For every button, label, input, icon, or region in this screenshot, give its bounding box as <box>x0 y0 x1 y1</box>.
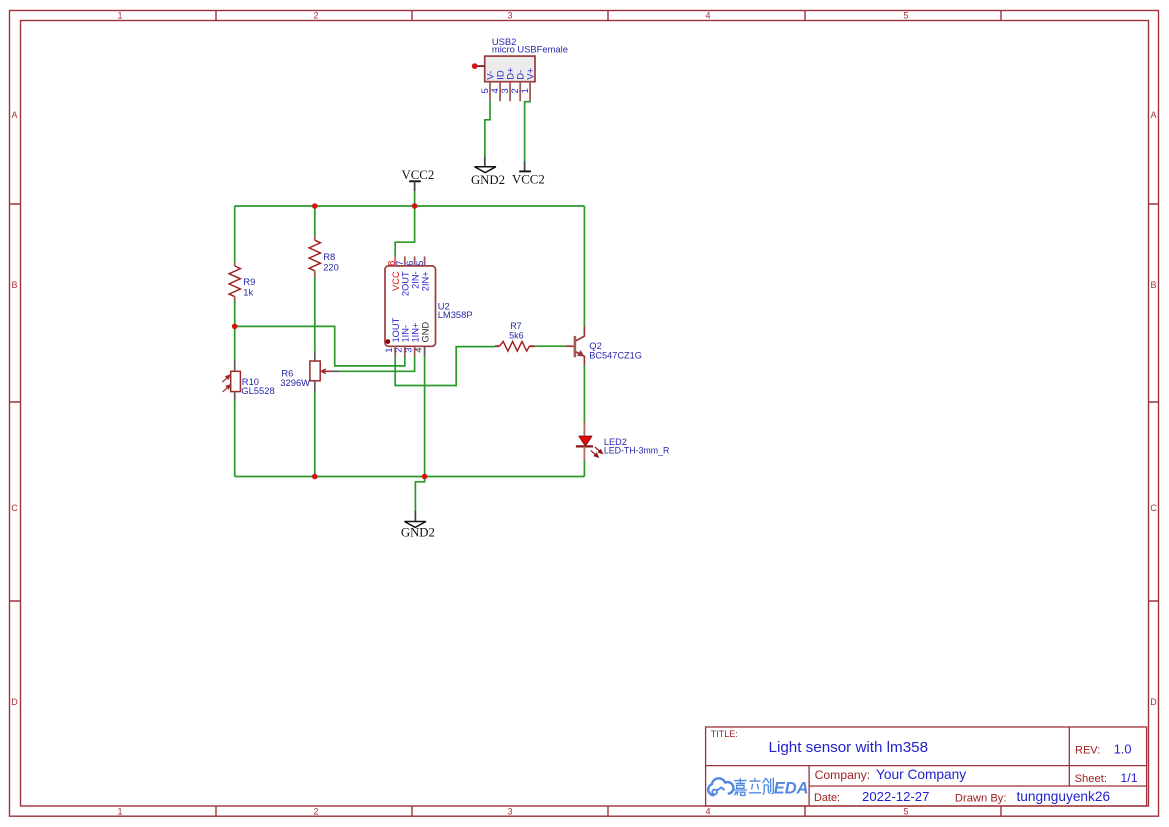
wire mid VCC2 flag stem <box>414 191 416 206</box>
svg-text:B: B <box>11 280 17 290</box>
LED2 triangle <box>579 436 592 446</box>
power flag GND2 (top) triangle <box>475 167 496 173</box>
svg-text:1/1: 1/1 <box>1120 771 1137 785</box>
wire R6 wiper to U2 pin3 (1IN+) <box>340 357 415 372</box>
resistor R8 zigzag <box>309 240 320 271</box>
svg-text:VCC: VCC <box>391 271 401 291</box>
photoresistor R10 body <box>231 371 241 391</box>
resistor R7 zigzag <box>500 341 530 351</box>
wire R8 column mid (R8 to R6) <box>314 278 316 352</box>
USB2 pin 5 <box>489 82 491 102</box>
svg-text:EDA: EDA <box>774 780 809 798</box>
svg-text:1.0: 1.0 <box>1114 742 1132 757</box>
svg-text:C: C <box>1150 503 1157 513</box>
wire VCC2 drop to U2 pin8 <box>395 206 414 257</box>
LED2 cathode bar <box>576 445 593 447</box>
wire left column mid (R9 to node to R10) <box>234 302 236 362</box>
power flag VCC2 (top, under USB) stem <box>524 162 526 172</box>
op-amp U2 body <box>385 266 436 346</box>
op-amp U2 pin 2 stub <box>404 346 406 356</box>
potentiometer R6 top stub <box>314 351 316 361</box>
op-amp U2 pin 7 stub <box>404 256 406 266</box>
power flag GND2 (bottom) stub <box>414 511 416 522</box>
wire R8 column upper (rail to R8) <box>314 206 316 236</box>
wire U2 pin4 (GND) to bottom rail <box>424 357 426 477</box>
svg-text:tungnguyenk26: tungnguyenk26 <box>1017 789 1111 804</box>
svg-text:Date:: Date: <box>814 792 840 804</box>
svg-text:Light sensor with lm358: Light sensor with lm358 <box>769 739 929 756</box>
op-amp U2 pin 5 stub <box>424 256 426 266</box>
svg-text:4: 4 <box>705 806 710 816</box>
svg-text:VCC2: VCC2 <box>512 173 545 187</box>
svg-text:1: 1 <box>117 11 122 21</box>
svg-text:Company:: Company: <box>815 768 871 782</box>
svg-text:1IN+: 1IN+ <box>411 323 421 343</box>
wire left column upper (rail to R9) <box>234 206 236 262</box>
svg-text:5: 5 <box>415 261 426 266</box>
op-amp U2 pin 1 stub <box>394 346 396 356</box>
power flag GND2 (top, under USB) stub <box>484 156 486 166</box>
wire left column lower (R10 to bottom rail) <box>234 401 236 477</box>
logo CJK glyph jia <box>733 778 747 795</box>
power flag VCC2 (top) bar <box>519 170 531 172</box>
svg-text:3: 3 <box>507 806 512 816</box>
svg-text:R9: R9 <box>243 276 255 287</box>
svg-text:R8: R8 <box>323 251 335 262</box>
svg-text:5: 5 <box>903 806 908 816</box>
wire USB pin5 to GND2 <box>485 101 490 156</box>
power flag VCC2 (mid) bar <box>409 180 421 182</box>
logo CJK glyph chuang <box>763 778 774 795</box>
LED2 anode stub <box>583 422 585 436</box>
potentiometer R6 wiper arrow <box>321 369 331 373</box>
svg-text:GND: GND <box>421 322 431 343</box>
LED2 light arrow 1 <box>595 447 602 453</box>
svg-text:BC547CZ1G: BC547CZ1G <box>589 350 642 360</box>
svg-text:2OUT: 2OUT <box>401 271 411 296</box>
potentiometer R6 body <box>310 361 320 381</box>
svg-text:C: C <box>11 503 18 513</box>
op-amp U2 pin 1 dot marker <box>385 339 390 344</box>
svg-text:D: D <box>11 697 18 707</box>
wire R7 to Q2 base <box>535 345 566 347</box>
resistor R8 bottom stub <box>314 271 316 278</box>
svg-text:4: 4 <box>413 348 424 353</box>
junction dot bottom rail R6 <box>312 474 318 480</box>
svg-text:GND2: GND2 <box>401 526 435 540</box>
transistor Q2 emitter line <box>576 352 585 365</box>
junction dot top rail VCC2 <box>412 203 418 209</box>
svg-text:V+: V+ <box>526 67 537 79</box>
transistor Q2 base stub <box>565 345 574 347</box>
resistor R9 zigzag <box>229 266 240 297</box>
svg-text:R7: R7 <box>510 321 522 331</box>
op-amp U2 pin 3 stub <box>414 346 416 356</box>
svg-text:2: 2 <box>313 806 318 816</box>
svg-text:1: 1 <box>117 806 122 816</box>
power flag VCC2 (mid) stem <box>414 181 416 191</box>
logo cloud icon <box>708 778 733 795</box>
op-amp U2 pin 6 stub <box>414 256 416 266</box>
transistor Q2 base bar <box>574 336 577 357</box>
connector USB2 box <box>485 56 535 82</box>
potentiometer R6 bottom stub <box>314 381 316 393</box>
svg-text:Drawn By:: Drawn By: <box>955 793 1007 805</box>
title block <box>706 727 1147 806</box>
junction dot bottom rail GND <box>422 474 428 480</box>
LED2 light arrow 2 <box>591 451 598 457</box>
svg-text:B: B <box>1150 280 1156 290</box>
svg-text:1OUT: 1OUT <box>391 317 401 342</box>
frame column ticks bottom <box>216 806 1001 816</box>
photoresistor R10 light arrow 2 <box>223 385 231 392</box>
power flag GND2 (bottom) triangle <box>405 522 426 528</box>
svg-text:A: A <box>11 110 17 120</box>
svg-text:LM358P: LM358P <box>438 309 473 320</box>
USB2 pin 2 <box>519 82 521 102</box>
svg-text:3: 3 <box>507 11 512 21</box>
wire USB pin1 to VCC2 <box>525 100 531 161</box>
wire right column upper (rail to Q2 collector) <box>583 206 585 327</box>
frame row ticks left <box>10 204 21 601</box>
svg-text:220: 220 <box>323 262 339 273</box>
svg-text:VCC2: VCC2 <box>402 168 435 182</box>
resistor R7 right stub <box>529 345 534 347</box>
photoresistor R10 light arrow 1 <box>222 375 230 382</box>
svg-text:TITLE:: TITLE: <box>711 729 738 739</box>
svg-text:2: 2 <box>313 11 318 21</box>
svg-text:1IN-: 1IN- <box>401 325 411 343</box>
photoresistor R10 top stub <box>234 361 236 371</box>
op-amp U2 pin 4 stub <box>424 346 426 356</box>
wire R6 column lower (R6 to bottom rail) <box>314 392 316 476</box>
svg-text:5: 5 <box>903 11 908 21</box>
svg-text:micro USBFemale: micro USBFemale <box>492 43 568 54</box>
op-amp U2 pin 8 stub <box>394 257 396 266</box>
svg-text:Your Company: Your Company <box>876 767 966 782</box>
svg-text:REV:: REV: <box>1075 745 1100 757</box>
svg-text:1k: 1k <box>243 287 253 298</box>
svg-text:2022-12-27: 2022-12-27 <box>862 789 929 804</box>
svg-text:2IN+: 2IN+ <box>420 271 430 291</box>
svg-text:GND2: GND2 <box>471 173 505 187</box>
transistor Q2 collector line <box>576 327 585 341</box>
frame column ticks top <box>216 11 1001 21</box>
svg-text:GL5528: GL5528 <box>241 385 274 396</box>
svg-text:Sheet:: Sheet: <box>1075 773 1107 785</box>
frame row ticks right <box>1149 204 1159 601</box>
svg-text:LED-TH-3mm_R: LED-TH-3mm_R <box>604 445 670 455</box>
svg-text:1: 1 <box>520 88 531 93</box>
wire right column mid (Q2 emitter to LED2) <box>583 365 585 423</box>
junction dot node A <box>232 324 238 330</box>
svg-text:A: A <box>1150 110 1156 120</box>
junction dot top rail R8 <box>312 203 318 209</box>
resistor R7 left stub <box>495 345 500 347</box>
resistor R9 top stub <box>234 262 236 266</box>
USB2 left stub end dot <box>472 63 478 69</box>
USB2 pin 1 <box>529 82 531 101</box>
transistor Q2 emitter arrow <box>578 351 584 356</box>
USB2 pin 3 <box>509 82 511 102</box>
USB2 pin 4 <box>499 82 501 102</box>
potentiometer R6 wiper gray stub <box>331 370 340 372</box>
logo CJK glyph li <box>749 778 761 793</box>
wire U2 pin1 (1OUT) to R7 <box>395 347 495 386</box>
resistor R8 top stub <box>314 236 316 240</box>
svg-text:2IN-: 2IN- <box>410 271 420 289</box>
wire right column lower (LED2 to bottom rail) <box>583 461 585 477</box>
photoresistor R10 bottom stub <box>234 392 236 401</box>
LED2 cathode stub <box>583 446 585 461</box>
svg-text:4: 4 <box>705 11 710 21</box>
wire top rail <box>235 205 585 207</box>
wire node A branch to U2 pin2 (1IN-) <box>235 326 405 366</box>
svg-text:5k6: 5k6 <box>509 331 524 341</box>
svg-text:3296W: 3296W <box>280 377 310 388</box>
svg-text:D: D <box>1150 697 1157 707</box>
USB2 left stub wire <box>476 65 485 67</box>
wire bottom rail to GND2 flag <box>415 477 424 511</box>
wire bottom rail <box>235 476 585 478</box>
resistor R9 bottom stub <box>234 297 236 302</box>
